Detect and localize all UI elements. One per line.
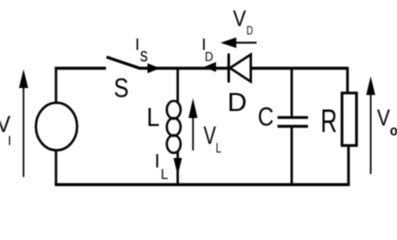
svg-text:V: V (233, 6, 246, 31)
svg-text:I: I (155, 151, 160, 173)
svg-text:I: I (8, 133, 12, 148)
svg-text:D: D (247, 25, 254, 37)
svg-text:s: s (140, 46, 148, 67)
svg-text:V: V (377, 105, 390, 131)
svg-text:V: V (204, 122, 217, 150)
svg-text:L: L (161, 167, 169, 183)
svg-text:L: L (147, 102, 160, 132)
svg-text:R: R (321, 103, 338, 139)
svg-text:D: D (205, 50, 214, 64)
svg-text:S: S (114, 73, 129, 103)
svg-text:o: o (390, 122, 397, 139)
svg-text:D: D (227, 87, 247, 117)
svg-text:C: C (258, 102, 274, 132)
svg-text:L: L (216, 140, 222, 156)
